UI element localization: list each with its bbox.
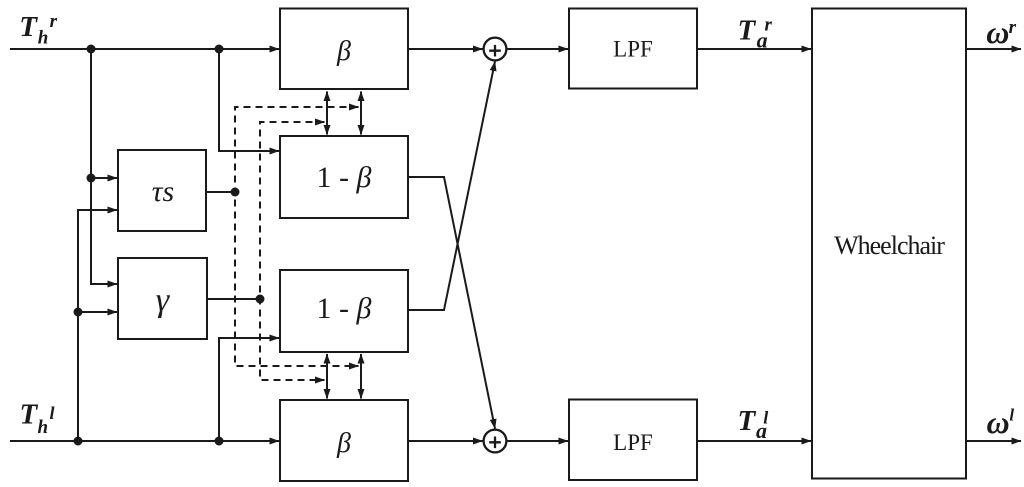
block beta top [280, 9, 408, 90]
svg-text:l: l [50, 403, 55, 423]
svg-text:r: r [50, 11, 58, 32]
svg-text:1 - β: 1 - β [317, 292, 372, 325]
block tau-s [118, 150, 206, 231]
block 1-beta lower [280, 270, 408, 352]
node J7 tau-s output on dashed bus A [231, 188, 240, 197]
svg-text:β: β [336, 428, 351, 459]
wire from J4 up to tau-s lower input [78, 210, 117, 441]
wire beta top output to top summer [408, 48, 483, 50]
block LPF bottom [569, 400, 697, 481]
label omega^l [987, 404, 1015, 440]
svg-text:LPF: LPF [613, 37, 653, 62]
wire 1-beta lower output cross to top summer [408, 62, 495, 311]
svg-text:r: r [1009, 17, 1017, 38]
wire T_a^l from LPF to wheelchair [697, 440, 811, 442]
summer bottom circle [484, 430, 507, 453]
block gamma [118, 258, 207, 339]
wire T_h^l input line [10, 440, 279, 442]
svg-text:T: T [738, 15, 757, 47]
node J4 on T_h^l line [74, 437, 83, 446]
summer bottom plus sign [489, 437, 501, 449]
wire omega^l output [966, 440, 1021, 442]
svg-text:r: r [765, 15, 773, 36]
double arrow between 1-beta lower and beta bottom right [360, 354, 362, 399]
node J2 on T_h^r line [215, 45, 224, 54]
dashed bus A from tau-s to beta adaptation arrows [235, 107, 359, 366]
double arrow between beta top and 1-beta upper left [326, 92, 328, 135]
label T_h^l [20, 399, 55, 439]
dashed bus B from gamma to beta adaptation arrows [260, 122, 325, 380]
wire T_h^r input line [10, 48, 279, 50]
node J8 gamma output on dashed bus B [256, 295, 265, 304]
double arrow between beta top and 1-beta upper right [360, 92, 362, 135]
block beta bottom [280, 400, 408, 481]
wire from J1 down to gamma input [91, 49, 117, 284]
svg-text:ω: ω [987, 404, 1010, 440]
svg-text:γ: γ [156, 282, 171, 319]
wire tau-s output to dashed bus A [206, 191, 235, 193]
wire J2 down to upper 1-beta input [219, 49, 279, 151]
block 1-beta upper [280, 136, 408, 218]
wire branch J1 to tau-s input [91, 177, 117, 179]
node J1 on T_h^r line [87, 45, 96, 54]
svg-text:l: l [763, 408, 768, 428]
svg-text:T: T [20, 399, 39, 431]
wire 1-beta upper output cross to bottom summer [408, 177, 495, 429]
wire T_a^r from LPF to wheelchair [697, 48, 811, 50]
wire gamma output to dashed bus B [207, 298, 260, 300]
svg-text:LPF: LPF [613, 430, 653, 455]
summer top plus sign [489, 45, 501, 57]
svg-text:l: l [1009, 406, 1014, 425]
label T_h^r [19, 11, 57, 49]
svg-text:1 - β: 1 - β [317, 161, 372, 194]
wire bottom summer to LPF bottom [508, 440, 569, 442]
wire beta bottom output to bottom summer [408, 440, 483, 442]
block LPF top [569, 9, 697, 89]
label T_a^r [738, 15, 773, 53]
wire omega^r output [966, 48, 1021, 50]
label T_a^l [738, 405, 769, 443]
summer top circle [484, 38, 507, 61]
block Wheelchair [812, 9, 966, 479]
svg-text:Wheelchair: Wheelchair [834, 231, 945, 260]
wire J5 up to lower 1-beta input [219, 338, 279, 441]
node J3 on vertical line at tau-s input [87, 174, 96, 183]
label omega^r [986, 14, 1016, 50]
svg-text:h: h [38, 417, 49, 438]
svg-text:T: T [19, 11, 38, 43]
svg-text:ω: ω [986, 14, 1009, 50]
node J6 on vertical line at gamma input [74, 308, 83, 317]
svg-text:τs: τs [152, 175, 174, 208]
double arrow between 1-beta lower and beta bottom left [326, 354, 328, 399]
svg-text:β: β [336, 36, 351, 67]
wire top summer to LPF top [508, 48, 569, 50]
svg-text:h: h [38, 28, 49, 49]
wire branch J4 to gamma lower input [78, 311, 117, 313]
node J5 on T_h^l line [215, 437, 224, 446]
svg-text:T: T [738, 405, 757, 437]
